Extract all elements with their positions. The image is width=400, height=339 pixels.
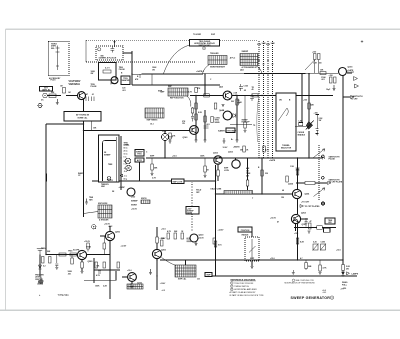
resistor R37 — [211, 117, 214, 123]
wire stub R42 — [151, 158, 153, 173]
svg-text:+GATE: +GATE — [269, 159, 276, 162]
resistor R40 choke — [299, 123, 303, 126]
svg-text:6.2: 6.2 — [43, 266, 46, 268]
wire y219 stub — [301, 218, 309, 220]
svg-text:20 m: 20 m — [124, 151, 128, 153]
capacitor C4 — [239, 87, 243, 89]
resistor R33 — [286, 176, 289, 182]
svg-text:50 m: 50 m — [124, 148, 128, 150]
svg-text:HOLDOFF: HOLDOFF — [242, 122, 250, 124]
svg-text:150K: 150K — [200, 156, 205, 158]
wire trigger y254.5 b — [87, 254, 111, 256]
wire Q12 emitter chain — [81, 260, 83, 262]
svg-text:+12.6V: +12.6V — [84, 241, 91, 243]
ground GND2 — [38, 277, 43, 285]
wire y85 — [132, 84, 220, 86]
svg-text:+150: +150 — [312, 52, 316, 54]
wire y183 resistor right — [315, 182, 327, 184]
wire pot ground stub — [251, 261, 253, 266]
box sweep gate — [186, 207, 199, 215]
ground GND1 — [56, 99, 59, 105]
svg-text:AUTO: AUTO — [137, 159, 143, 162]
wire x262 mid — [261, 170, 263, 194]
svg-text:+150: +150 — [303, 100, 307, 102]
svg-text:1W: 1W — [152, 70, 155, 72]
resistor R36 — [204, 116, 207, 122]
wire y227.4 — [294, 226, 336, 228]
riser R51 x306 — [305, 260, 307, 270]
resistor R2 pot — [63, 88, 66, 94]
dotted vertical x192 — [191, 181, 193, 231]
svg-text:+TO CRT: +TO CRT — [301, 202, 310, 204]
ground GND3 — [149, 269, 152, 275]
svg-text:SWP LGTH: SWP LGTH — [173, 181, 183, 183]
switch section dashed col 2 — [263, 41, 265, 158]
svg-text:PULSE: PULSE — [119, 69, 126, 71]
wire bottom bus y260 — [160, 259, 343, 261]
box bottom right b — [324, 228, 331, 232]
svg-text:LGTH: LGTH — [224, 170, 230, 172]
svg-text:TO CRT: TO CRT — [347, 72, 355, 74]
resistor R45 — [71, 258, 74, 264]
wire base Q290 — [100, 235, 105, 237]
wire vertical x121 — [120, 136, 122, 190]
trimmer C6 — [313, 244, 318, 250]
note coupling — [292, 279, 295, 282]
ganged switch dashed line — [86, 39, 258, 41]
ground GND7 — [251, 267, 254, 269]
dashed box accessory plug — [49, 42, 70, 76]
wire y183 resistor left — [296, 182, 305, 184]
svg-text:SWEEP: SWEEP — [131, 201, 138, 203]
wire main bus y74 — [132, 73, 338, 74]
box heater 6.3V — [99, 63, 117, 81]
ground GND19 — [81, 272, 84, 274]
switch wafer SW-C — [145, 108, 164, 118]
svg-text:AT PART OF AN ACCESSORY: AT PART OF AN ACCESSORY — [230, 291, 257, 294]
wire vertical x83.5 — [83, 100, 85, 218]
ground GND17 — [204, 176, 207, 178]
transistor Q12 — [77, 250, 86, 259]
svg-text:+2.2: +2.2 — [162, 290, 165, 292]
svg-text:TRIG: TRIG — [41, 248, 46, 250]
relay K1 arrow — [306, 121, 313, 130]
svg-text:4.7K: 4.7K — [96, 274, 101, 277]
arrow connector A2 — [355, 84, 359, 88]
transistor Q15 — [128, 273, 137, 282]
capacitor C13 — [98, 271, 101, 273]
switch wafer SW-H — [141, 200, 150, 204]
svg-text:A PLC: A PLC — [230, 57, 236, 60]
svg-text:.001: .001 — [186, 238, 190, 240]
resistor R42 — [151, 164, 154, 170]
wire Q15 emitter — [131, 281, 133, 285]
tunnel selector internal — [278, 108, 288, 121]
switch wafer SW-G — [127, 284, 143, 289]
switch wafer SW-F — [98, 205, 112, 218]
resistor R8 — [95, 262, 98, 268]
resistor R14 — [181, 233, 184, 239]
box ext ampl label — [40, 87, 53, 92]
arrow connector A4 — [300, 205, 304, 208]
resistor R30 vert — [169, 133, 172, 139]
capacitor C16 stub — [55, 255, 58, 268]
resistor R27 — [308, 103, 311, 109]
ground GND12 — [236, 140, 239, 142]
connector bars bus158 end — [323, 157, 325, 160]
wire lamp to bus — [164, 141, 166, 158]
connector J1 — [43, 93, 47, 97]
wire vertical x46 — [45, 124, 47, 255]
resistor R9 — [103, 262, 106, 268]
svg-text:560: 560 — [319, 63, 322, 65]
wire vertical x110 — [109, 241, 111, 299]
svg-text:TO CRT PLATE: TO CRT PLATE — [329, 181, 343, 184]
svg-text:DELAY LINE: DELAY LINE — [211, 188, 223, 191]
svg-text:+SAW B: +SAW B — [233, 146, 240, 149]
link curve Q14 to wafer — [162, 258, 177, 266]
switch wafer SW-D — [168, 88, 188, 96]
switch link curve left — [203, 65, 210, 74]
riser x245 — [244, 96, 246, 131]
svg-text:1 m: 1 m — [124, 164, 127, 166]
wire Q6 emitter chain — [217, 164, 219, 170]
svg-text:TO CRT: TO CRT — [351, 98, 359, 100]
link curve wafer F — [84, 212, 99, 214]
gang contact dots — [322, 155, 325, 158]
arrow connector A5 — [347, 272, 350, 275]
svg-text:NORM CAL: NORM CAL — [78, 116, 89, 119]
ground GND16 — [316, 134, 319, 136]
wire riser x315 — [314, 60, 316, 74]
resistor R35 — [236, 99, 239, 105]
wire Q15 base — [122, 276, 128, 278]
wire pot box stub — [251, 232, 253, 237]
legend item 2 — [231, 285, 234, 288]
svg-text:1CM: 1CM — [271, 43, 275, 45]
transistor Q14 — [152, 249, 161, 258]
svg-text:1: 1 — [231, 283, 232, 285]
svg-text:4.7K: 4.7K — [188, 91, 193, 94]
svg-text:3: 3 — [231, 289, 232, 291]
resistor R6 trig — [70, 253, 77, 256]
pot wiper in dashed box — [249, 239, 256, 259]
svg-text:SELECTOR: SELECTOR — [281, 147, 292, 149]
wire pot P1 stem — [295, 224, 297, 231]
svg-text:LAMPS: LAMPS — [352, 272, 359, 275]
resistor R38 — [261, 170, 264, 176]
wire vertical x205 — [204, 74, 206, 96]
resistor R41 — [204, 166, 207, 172]
svg-text:68: 68 — [282, 190, 284, 192]
wire sawtooth out y97 — [343, 96, 350, 98]
svg-text:+12.6V: +12.6V — [270, 218, 277, 220]
svg-text:NORM RESTART: NORM RESTART — [210, 65, 226, 68]
svg-text:+150: +150 — [162, 131, 166, 133]
svg-text:TRIG'D: TRIG'D — [107, 180, 114, 182]
svg-text:VARIABLE: VARIABLE — [69, 83, 81, 86]
diode D2 — [233, 114, 236, 118]
capacitor C18 x306 — [305, 218, 308, 227]
switch wafer SW-B — [240, 54, 258, 66]
ground GND22 — [292, 270, 295, 275]
wire stub R41 — [204, 158, 206, 175]
selector bullet circles — [125, 158, 131, 164]
svg-text:TO CRT PLATES: TO CRT PLATES — [305, 205, 321, 208]
wire y124 — [46, 123, 84, 125]
resistor R1 input — [49, 94, 56, 98]
svg-text:2W: 2W — [346, 268, 349, 270]
wire input jack — [47, 95, 61, 97]
transistor internals Q6 — [216, 157, 220, 163]
svg-text:+12.6: +12.6 — [161, 229, 166, 231]
transistor Q6 — [214, 156, 222, 164]
transistor Q1 — [111, 77, 118, 84]
transistor Q3 — [190, 126, 199, 135]
capacitor C11 — [250, 94, 254, 102]
svg-text:47: 47 — [310, 220, 312, 223]
svg-text:TYPE 564: TYPE 564 — [58, 294, 70, 297]
svg-text:4-63: 4-63 — [323, 292, 327, 294]
circled note under title — [203, 47, 206, 50]
resistor R22 — [309, 223, 312, 229]
resistor R29 vert — [214, 103, 217, 109]
capacitor C3 — [187, 240, 192, 242]
resistor R54 Q8 riser — [296, 169, 299, 175]
transistor Q2 — [78, 92, 86, 100]
transistor Q13 — [105, 231, 114, 240]
svg-text:1/2 AMPL B PLUG-IN: 1/2 AMPL B PLUG-IN — [99, 57, 117, 60]
svg-text:47: 47 — [277, 221, 279, 224]
transistor internals Q9 — [294, 216, 299, 222]
svg-text:1.5K: 1.5K — [290, 166, 295, 168]
resistor R32 — [243, 146, 246, 152]
dashed box plug-in unit — [96, 46, 123, 60]
resistor R16 timing — [314, 54, 317, 60]
box switch title — [190, 40, 220, 47]
connector J3 — [38, 104, 42, 108]
ground GND4 — [333, 85, 336, 91]
svg-text:.001: .001 — [321, 79, 325, 81]
svg-text:SENS: SENS — [215, 122, 221, 124]
ground GND6 — [85, 199, 88, 205]
capacitor C9 plugin — [111, 47, 115, 53]
wire y270 — [94, 269, 120, 271]
svg-text:TIMING SWITCH: TIMING SWITCH — [234, 286, 249, 288]
svg-text:.001: .001 — [122, 90, 126, 92]
wire x297.5 cap riser — [297, 158, 299, 189]
svg-text:NORM: NORM — [131, 205, 137, 207]
wire x247.5 riser — [247, 158, 249, 180]
svg-text:+150: +150 — [131, 197, 135, 199]
wire lamp feed — [164, 131, 166, 134]
wire vertical x196 — [195, 96, 197, 141]
svg-text:4.7K: 4.7K — [167, 230, 172, 233]
svg-text:+12.6: +12.6 — [172, 156, 177, 158]
dashed y62 — [86, 61, 196, 63]
box timing sweep — [99, 135, 120, 182]
switch link curve D — [187, 96, 191, 107]
riser x140 — [139, 74, 141, 78]
svg-text:+2 SWP: +2 SWP — [119, 187, 126, 189]
svg-text:330: 330 — [265, 173, 268, 175]
accessory plug internal — [56, 46, 60, 71]
transistor Q8 — [292, 189, 301, 198]
svg-text:+12.6V: +12.6V — [198, 238, 205, 240]
svg-text:47: 47 — [86, 93, 88, 96]
svg-text:RANGE: RANGE — [242, 234, 249, 237]
capacitor C12 — [296, 168, 300, 170]
svg-text:LEVEL: LEVEL — [124, 145, 131, 147]
svg-text:CENTER: CENTER — [35, 279, 43, 281]
box swp small — [205, 273, 212, 277]
resistor R57 on y227 — [317, 226, 323, 229]
wire x94 vertical — [93, 258, 95, 283]
svg-text:C290: C290 — [321, 242, 325, 244]
resistor R47 x192.5 — [191, 108, 194, 113]
wire vertical x343 — [342, 76, 344, 272]
wire bottom bus y276 — [205, 275, 357, 277]
wire x262 link — [261, 158, 263, 170]
resistor R39 — [296, 238, 299, 244]
resistor R53 x247.5 — [246, 180, 249, 186]
switch section dashed col 4 — [272, 41, 274, 158]
svg-text:PULSE: PULSE — [91, 86, 98, 88]
wire vertical x237 — [236, 96, 238, 141]
wire Q14 collector chain — [156, 227, 158, 237]
svg-text:SAWTOOTH SWP: SAWTOOTH SWP — [218, 130, 237, 133]
resistor R46 — [87, 243, 90, 249]
svg-text:POSITION: POSITION — [241, 230, 250, 232]
svg-text:4.7K: 4.7K — [323, 267, 328, 270]
wire vertical x91.8 — [91, 121, 93, 131]
ground GND13 — [223, 138, 226, 143]
capacitor C14 x317 — [316, 115, 320, 134]
dashed gang x319 — [318, 145, 320, 200]
svg-text:100K: 100K — [95, 286, 100, 288]
resistor R13 — [174, 233, 177, 239]
transistor Q10 — [339, 68, 347, 76]
svg-text:390: 390 — [240, 150, 243, 152]
resistor R5 trig — [59, 253, 66, 256]
transistor internals Q12 — [80, 252, 85, 258]
wire zener branch x40 — [39, 255, 41, 277]
svg-text:.01: .01 — [92, 94, 95, 96]
transistor Q4 — [223, 91, 232, 100]
arrow connector A1 — [354, 77, 358, 81]
wire holdoff y124.6 — [230, 124, 252, 126]
svg-text:TRIGGER: TRIGGER — [210, 53, 219, 55]
svg-text:.2 m: .2 m — [124, 171, 128, 173]
svg-text:2: 2 — [231, 286, 232, 288]
svg-text:HORIZONTAL AMPLIFIER: HORIZONTAL AMPLIFIER — [234, 288, 257, 291]
svg-text:.05: .05 — [244, 90, 247, 92]
svg-text:.1 m: .1 m — [124, 176, 128, 178]
svg-text:1W: 1W — [182, 123, 185, 125]
arrow connector A3 — [351, 96, 355, 99]
svg-text:SWEEP GENERATOR: SWEEP GENERATOR — [291, 296, 331, 300]
switch wafer SW-E — [175, 265, 196, 277]
ground GND10 — [195, 140, 198, 142]
svg-text:L30: L30 — [299, 121, 302, 123]
wire delay line bus y194 — [216, 193, 292, 195]
svg-text:REP FUNCTION: REP FUNCTION — [170, 98, 184, 100]
dashed box position pot — [245, 237, 259, 261]
switch wafer SW-A — [208, 56, 227, 65]
transistor Q7 — [232, 160, 240, 168]
dashed vertical x86 — [85, 40, 87, 62]
gang arrow diag 3 — [305, 60, 315, 71]
wire trigger y254.5 — [46, 254, 78, 256]
legend item 1 — [231, 282, 234, 285]
box saw b — [226, 128, 235, 133]
circled 3 title — [330, 296, 333, 299]
transistor internals Q8 — [295, 191, 300, 197]
svg-text:+12.6V: +12.6V — [218, 230, 225, 232]
diode D3 lamps — [341, 272, 345, 276]
svg-text:ATT HORIZ IN: ATT HORIZ IN — [76, 114, 90, 117]
switch link curve B1 — [164, 45, 190, 74]
svg-text:C01: C01 — [197, 279, 200, 281]
page edge top — [6, 28, 400, 30]
capacitor C5 — [240, 84, 242, 91]
wire riser x318 — [318, 60, 320, 74]
wire collector Q64 right — [232, 95, 333, 97]
resistor R31 — [263, 146, 266, 152]
svg-text:MODIFICATION OF THIS NETWORK: MODIFICATION OF THIS NETWORK — [285, 281, 316, 284]
transistor internals Q14 — [155, 251, 160, 257]
resistor R7 — [103, 243, 106, 249]
ground GND18 — [151, 174, 154, 176]
svg-text:5-25: 5-25 — [313, 242, 317, 244]
svg-text:+12.6V: +12.6V — [160, 283, 166, 285]
svg-text:C160: C160 — [244, 86, 248, 88]
riser x152 — [151, 74, 153, 85]
junction dots — [83, 130, 84, 131]
svg-text:AMPL IN: AMPL IN — [42, 88, 50, 91]
svg-text:8.2K: 8.2K — [300, 242, 305, 244]
svg-text:SHAPER: SHAPER — [122, 79, 130, 82]
page edge bottom — [0, 309, 400, 311]
transistor internals Q15 — [130, 274, 134, 280]
resistor R48 x196 riser — [195, 88, 198, 93]
svg-text:SLOPE: SLOPE — [73, 250, 80, 252]
svg-text:.5 m: .5 m — [124, 168, 128, 170]
index mark top right — [361, 40, 363, 42]
svg-text:SWP CAL: SWP CAL — [178, 278, 187, 281]
zener D1 — [39, 265, 42, 269]
switch section dashed col 1 — [258, 41, 260, 158]
wire attenuator to base — [66, 95, 78, 97]
wire stub Q300 — [156, 259, 158, 290]
wire y130.5 — [84, 130, 191, 132]
test point TP1 — [321, 202, 324, 205]
wire stub R45 — [71, 255, 73, 259]
wire vertical x297.5 upper — [297, 199, 299, 214]
svg-text:5 m: 5 m — [124, 157, 127, 159]
transistor Q9 — [291, 214, 300, 223]
switch link curve right — [257, 66, 263, 74]
svg-text:2.7K: 2.7K — [152, 178, 157, 180]
svg-text:9BA/B-B: 9BA/B-B — [298, 133, 306, 136]
capacitor C10 — [204, 126, 209, 128]
svg-text:150: 150 — [281, 197, 284, 199]
box position range — [238, 227, 252, 232]
svg-text:45: 45 — [252, 88, 254, 91]
svg-text:SWP B: SWP B — [141, 198, 147, 200]
wire x309 to Q11 — [308, 121, 310, 123]
wire x215.5 lower — [215, 230, 217, 276]
